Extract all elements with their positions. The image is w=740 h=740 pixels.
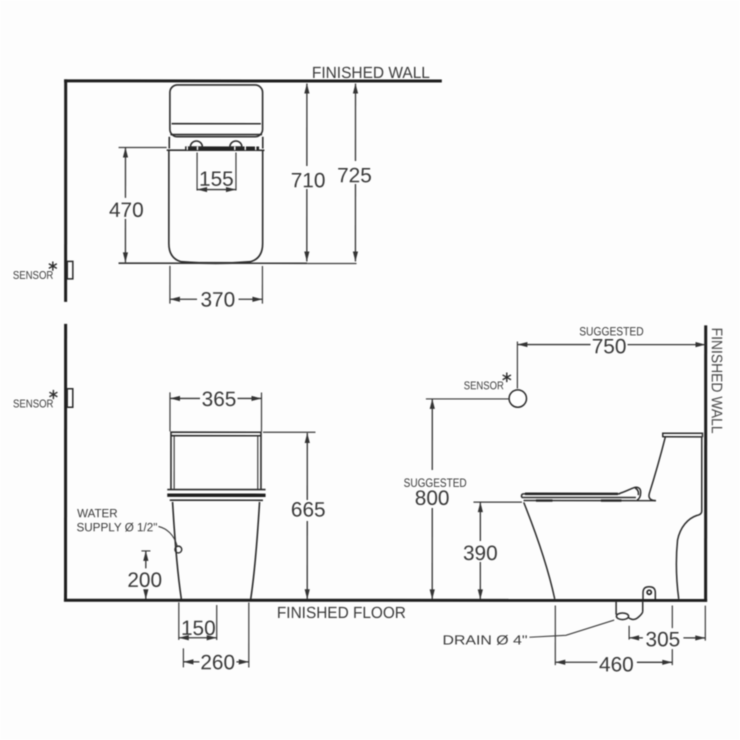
svg-text:365: 365 — [202, 388, 237, 411]
svg-text:155: 155 — [199, 168, 234, 191]
svg-text:710: 710 — [291, 169, 326, 192]
svg-text:370: 370 — [200, 288, 235, 311]
svg-text:SENSOR: SENSOR — [464, 380, 504, 392]
svg-text:800: 800 — [415, 487, 450, 510]
svg-text:FINISHED WALL: FINISHED WALL — [708, 328, 725, 434]
svg-text:305: 305 — [646, 628, 681, 651]
svg-text:150: 150 — [181, 617, 216, 640]
svg-text:FINISHED FLOOR: FINISHED FLOOR — [277, 604, 406, 622]
svg-text:DRAIN Ø 4": DRAIN Ø 4" — [443, 633, 528, 648]
svg-text:SENSOR: SENSOR — [13, 398, 54, 410]
svg-text:390: 390 — [463, 542, 498, 565]
svg-text:FINISHED WALL: FINISHED WALL — [312, 64, 430, 82]
svg-text:750: 750 — [592, 335, 627, 358]
svg-text:665: 665 — [291, 498, 326, 521]
svg-text:SUPPLY Ø 1/2": SUPPLY Ø 1/2" — [76, 520, 157, 534]
svg-text:725: 725 — [337, 164, 372, 187]
svg-text:200: 200 — [127, 569, 162, 592]
svg-text:SENSOR: SENSOR — [13, 270, 54, 282]
svg-text:460: 460 — [599, 653, 634, 676]
svg-text:WATER: WATER — [77, 506, 118, 520]
svg-text:470: 470 — [109, 199, 144, 222]
svg-text:260: 260 — [200, 651, 235, 674]
